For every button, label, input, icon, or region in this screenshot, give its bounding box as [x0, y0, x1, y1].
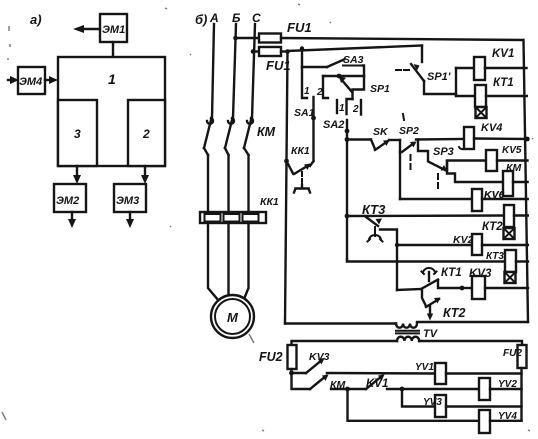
- contact KT1 (timed): [421, 267, 462, 289]
- solenoid YV1: [415, 362, 446, 384]
- fuse FU1 (lower): [259, 47, 291, 73]
- svg-text:KV3: KV3: [469, 268, 492, 280]
- relay coil KV6: [472, 189, 505, 211]
- wire KM coil right lead: [513, 181, 528, 183]
- tick above SP2: [403, 114, 404, 120]
- wire A to motor: [208, 223, 219, 301]
- top feed rail from phase B: [233, 36, 259, 41]
- block EM3: [114, 184, 146, 212]
- fuse FU2 (right): [503, 345, 527, 368]
- svg-text:1: 1: [304, 86, 310, 97]
- node below FU2: [289, 371, 294, 376]
- wire YV2 right lead: [490, 388, 522, 390]
- motor M: [211, 295, 254, 338]
- svg-text:YV3: YV3: [423, 397, 442, 408]
- transformer TV: [396, 324, 439, 342]
- wire KV2 right lead: [482, 244, 528, 246]
- wire SK to SP2: [389, 139, 400, 141]
- svg-text:КТ1: КТ1: [441, 267, 462, 279]
- block EM1: [100, 14, 127, 42]
- wire SP1' out: [424, 81, 456, 94]
- wire SA2 common down: [345, 120, 350, 260]
- wire TV primary right: [417, 321, 528, 323]
- switch SA1 terminal 1: [302, 67, 310, 98]
- svg-text:FU2: FU2: [503, 348, 522, 359]
- wire KV6 tap down: [399, 152, 401, 199]
- svg-text:а): а): [30, 12, 42, 27]
- svg-text:КТ3: КТ3: [486, 251, 504, 262]
- wire KV6 left lead: [400, 198, 472, 200]
- wire C to motor: [244, 223, 249, 299]
- arrow below EM3: [126, 212, 134, 228]
- wire KV3 left lead: [438, 280, 472, 290]
- wire TV primary left: [285, 322, 396, 324]
- svg-text:SP2: SP2: [399, 125, 419, 137]
- wire phase B: [233, 24, 236, 118]
- node SP1 pivot: [337, 74, 342, 79]
- solenoid YV3: [435, 395, 446, 417]
- wire KV1 left lead: [456, 67, 474, 69]
- wire rail corner down to SP1': [421, 46, 423, 63]
- svg-text:2: 2: [142, 127, 150, 141]
- wire SP1 fixed bracket: [353, 76, 365, 99]
- svg-text:КТ2: КТ2: [482, 221, 503, 233]
- contactor coil KM: [503, 162, 521, 196]
- svg-text:ЭМ3: ЭМ3: [116, 195, 139, 207]
- svg-text:КТ2: КТ2: [443, 306, 465, 320]
- KT3 delay element (crossed box): [505, 272, 516, 283]
- contact KT3 (timed): [362, 202, 386, 242]
- wire row from rail corner: [347, 260, 505, 262]
- wire EM4 to block 1 with arrow: [45, 76, 58, 84]
- wire KV1 contact out to YV2: [387, 387, 479, 392]
- arrow block 3 to EM2: [73, 166, 81, 184]
- svg-text:KV4: KV4: [481, 122, 502, 134]
- svg-text:ЭМ2: ЭМ2: [56, 195, 79, 207]
- relay coil KV5: [486, 145, 522, 171]
- thermal relay KK1 heaters: [200, 196, 279, 223]
- block EM2: [54, 184, 86, 212]
- wire KM contact out: [331, 387, 366, 392]
- svg-text:ЭМ4: ЭМ4: [19, 76, 42, 88]
- wire KV3 out to YV1: [327, 372, 435, 375]
- relay coil KV1: [474, 48, 514, 80]
- solenoid YV2: [479, 378, 517, 400]
- wire KT3 coil right lead: [516, 260, 528, 262]
- contact KT2 (timed): [422, 289, 465, 321]
- fuse FU1 (upper): [259, 20, 312, 43]
- block 2 (inner box): [128, 100, 165, 166]
- svg-text:КМ: КМ: [257, 125, 276, 139]
- svg-text:SP1': SP1': [427, 71, 451, 83]
- switch SA2 terminal 2: [352, 100, 361, 115]
- wire YV4 right lead: [490, 420, 522, 422]
- wire branch vertical: [455, 68, 457, 96]
- svg-text:1: 1: [339, 103, 345, 114]
- time relay coil KT1: [475, 77, 514, 107]
- relay coil KV2: [453, 234, 482, 255]
- arrow into EM4: [8, 76, 19, 84]
- contact KV3: [292, 351, 330, 373]
- wire YV1 right lead: [446, 372, 522, 374]
- wire KV2 left lead: [395, 243, 472, 247]
- contact KM (aux): [310, 375, 345, 392]
- wire phase C lower: [244, 148, 249, 155]
- contact SK: [371, 126, 390, 150]
- svg-text:КК1: КК1: [291, 145, 310, 157]
- wire row from SA2 rail: [345, 214, 504, 219]
- switch SA2 terminal 1: [337, 100, 345, 114]
- wire KV5 right lead: [497, 159, 528, 161]
- contact SP1': [396, 64, 451, 83]
- svg-text:1: 1: [108, 71, 116, 87]
- svg-text:КК1: КК1: [260, 196, 279, 208]
- top rail wire to right: [281, 38, 523, 40]
- arrow below EM2: [68, 212, 76, 228]
- wire down to YV3 row: [402, 389, 435, 407]
- switch SA2 terminal mid: [347, 99, 353, 114]
- contact SP1: [339, 76, 390, 95]
- svg-text:KV5: KV5: [502, 145, 522, 156]
- block 1 (outer box): [58, 57, 165, 166]
- wire phase A: [212, 24, 214, 118]
- svg-text:SP3: SP3: [433, 146, 454, 158]
- KT2 delay element (crossed box): [504, 228, 515, 239]
- wire SP1 top bar: [323, 75, 364, 77]
- svg-text:SA3: SA3: [343, 54, 364, 66]
- arrow out of EM1: [73, 25, 100, 33]
- svg-text:SK: SK: [373, 126, 389, 138]
- switch SA1 terminal 2: [316, 76, 328, 98]
- svg-text:KV6: KV6: [484, 189, 505, 201]
- svg-text:ЭМ1: ЭМ1: [102, 24, 125, 36]
- lower feed from phase C: [251, 49, 259, 54]
- svg-text:FU1: FU1: [287, 20, 312, 35]
- wire TV secondary right: [419, 341, 522, 345]
- node at rail feeding SA3: [300, 46, 304, 50]
- switch SA3: [327, 54, 364, 67]
- wire KT2 right lead: [514, 214, 528, 216]
- wire down to KM contact row: [292, 373, 311, 389]
- wire phase A lower: [204, 148, 208, 155]
- svg-text:КТ3: КТ3: [362, 202, 386, 217]
- time relay coil KT3: [486, 250, 516, 272]
- svg-text:SA2: SA2: [323, 119, 344, 131]
- wire SA3 left lead: [302, 66, 327, 68]
- svg-text:КМ: КМ: [506, 162, 521, 174]
- svg-text:КТ1: КТ1: [493, 77, 514, 89]
- wire KT1 left lead: [456, 95, 475, 97]
- wire KV4 right lead: [474, 137, 530, 142]
- svg-text:FU2: FU2: [259, 350, 283, 364]
- wire TV secondary left: [292, 341, 398, 345]
- wire KT3 contact out: [380, 230, 397, 291]
- wire rail down to SA3 row: [301, 49, 303, 68]
- wire EM1 to block 1: [112, 42, 114, 57]
- svg-text:С: С: [252, 11, 261, 25]
- wire SA3 right lead down to SP1 box: [363, 66, 364, 77]
- contact SP3: [429, 146, 464, 188]
- svg-text:KV1: KV1: [492, 48, 514, 60]
- wire KM coil feed: [447, 161, 503, 182]
- wire KV3 right lead: [485, 287, 528, 289]
- wire down to YV4 row: [348, 389, 480, 421]
- relay coil KV3: [469, 268, 492, 299]
- svg-text:KV2: KV2: [453, 234, 474, 246]
- wire KT1 row left: [397, 289, 421, 290]
- solenoid YV4: [479, 410, 517, 433]
- time relay coil KT2: [482, 205, 514, 233]
- svg-text:б): б): [195, 12, 207, 27]
- contact KK1 (control): [284, 145, 313, 193]
- wire SP2 out to KV4: [416, 138, 464, 141]
- svg-text:YV1: YV1: [415, 362, 434, 373]
- svg-text:2: 2: [352, 104, 359, 115]
- wire KT1 right lead: [486, 95, 527, 97]
- contactor KM main contacts: [204, 118, 276, 148]
- relay coil KV4: [464, 122, 502, 149]
- wire phase B lower: [225, 148, 229, 155]
- wire B to motor: [227, 223, 229, 295]
- wire KV1 right lead: [485, 67, 527, 69]
- block 3 (inner box): [58, 100, 97, 166]
- wire YV3 right lead: [446, 405, 522, 407]
- wire SK left lead: [347, 138, 371, 140]
- svg-text:SP1: SP1: [370, 83, 390, 95]
- contact KV1 (aux): [366, 375, 388, 391]
- svg-text:ТV: ТV: [423, 328, 439, 340]
- svg-text:KV1: KV1: [366, 378, 388, 390]
- right rail of bottom section: [520, 368, 522, 421]
- arrow block 2 to EM3: [141, 166, 149, 184]
- right rail: [524, 40, 529, 322]
- lower rail wire: [281, 46, 422, 54]
- wire SA1 common down: [311, 97, 316, 161]
- wire KV5 left lead: [447, 159, 486, 161]
- fuse FU2 (left): [259, 345, 297, 373]
- KT1 delay element (crossed box): [476, 107, 487, 118]
- svg-text:KV3: KV3: [309, 351, 330, 363]
- wire phase C: [252, 24, 255, 118]
- svg-text:3: 3: [74, 127, 81, 141]
- wire SP3 out up to KV5 row: [446, 161, 447, 170]
- wire KV6 right lead: [482, 198, 528, 200]
- svg-text:2: 2: [316, 87, 323, 98]
- left control rail down: [285, 52, 288, 324]
- contact SP2: [399, 125, 419, 170]
- wire SP3 tap: [418, 140, 428, 162]
- block EM4: [18, 67, 45, 94]
- svg-text:М: М: [227, 310, 239, 325]
